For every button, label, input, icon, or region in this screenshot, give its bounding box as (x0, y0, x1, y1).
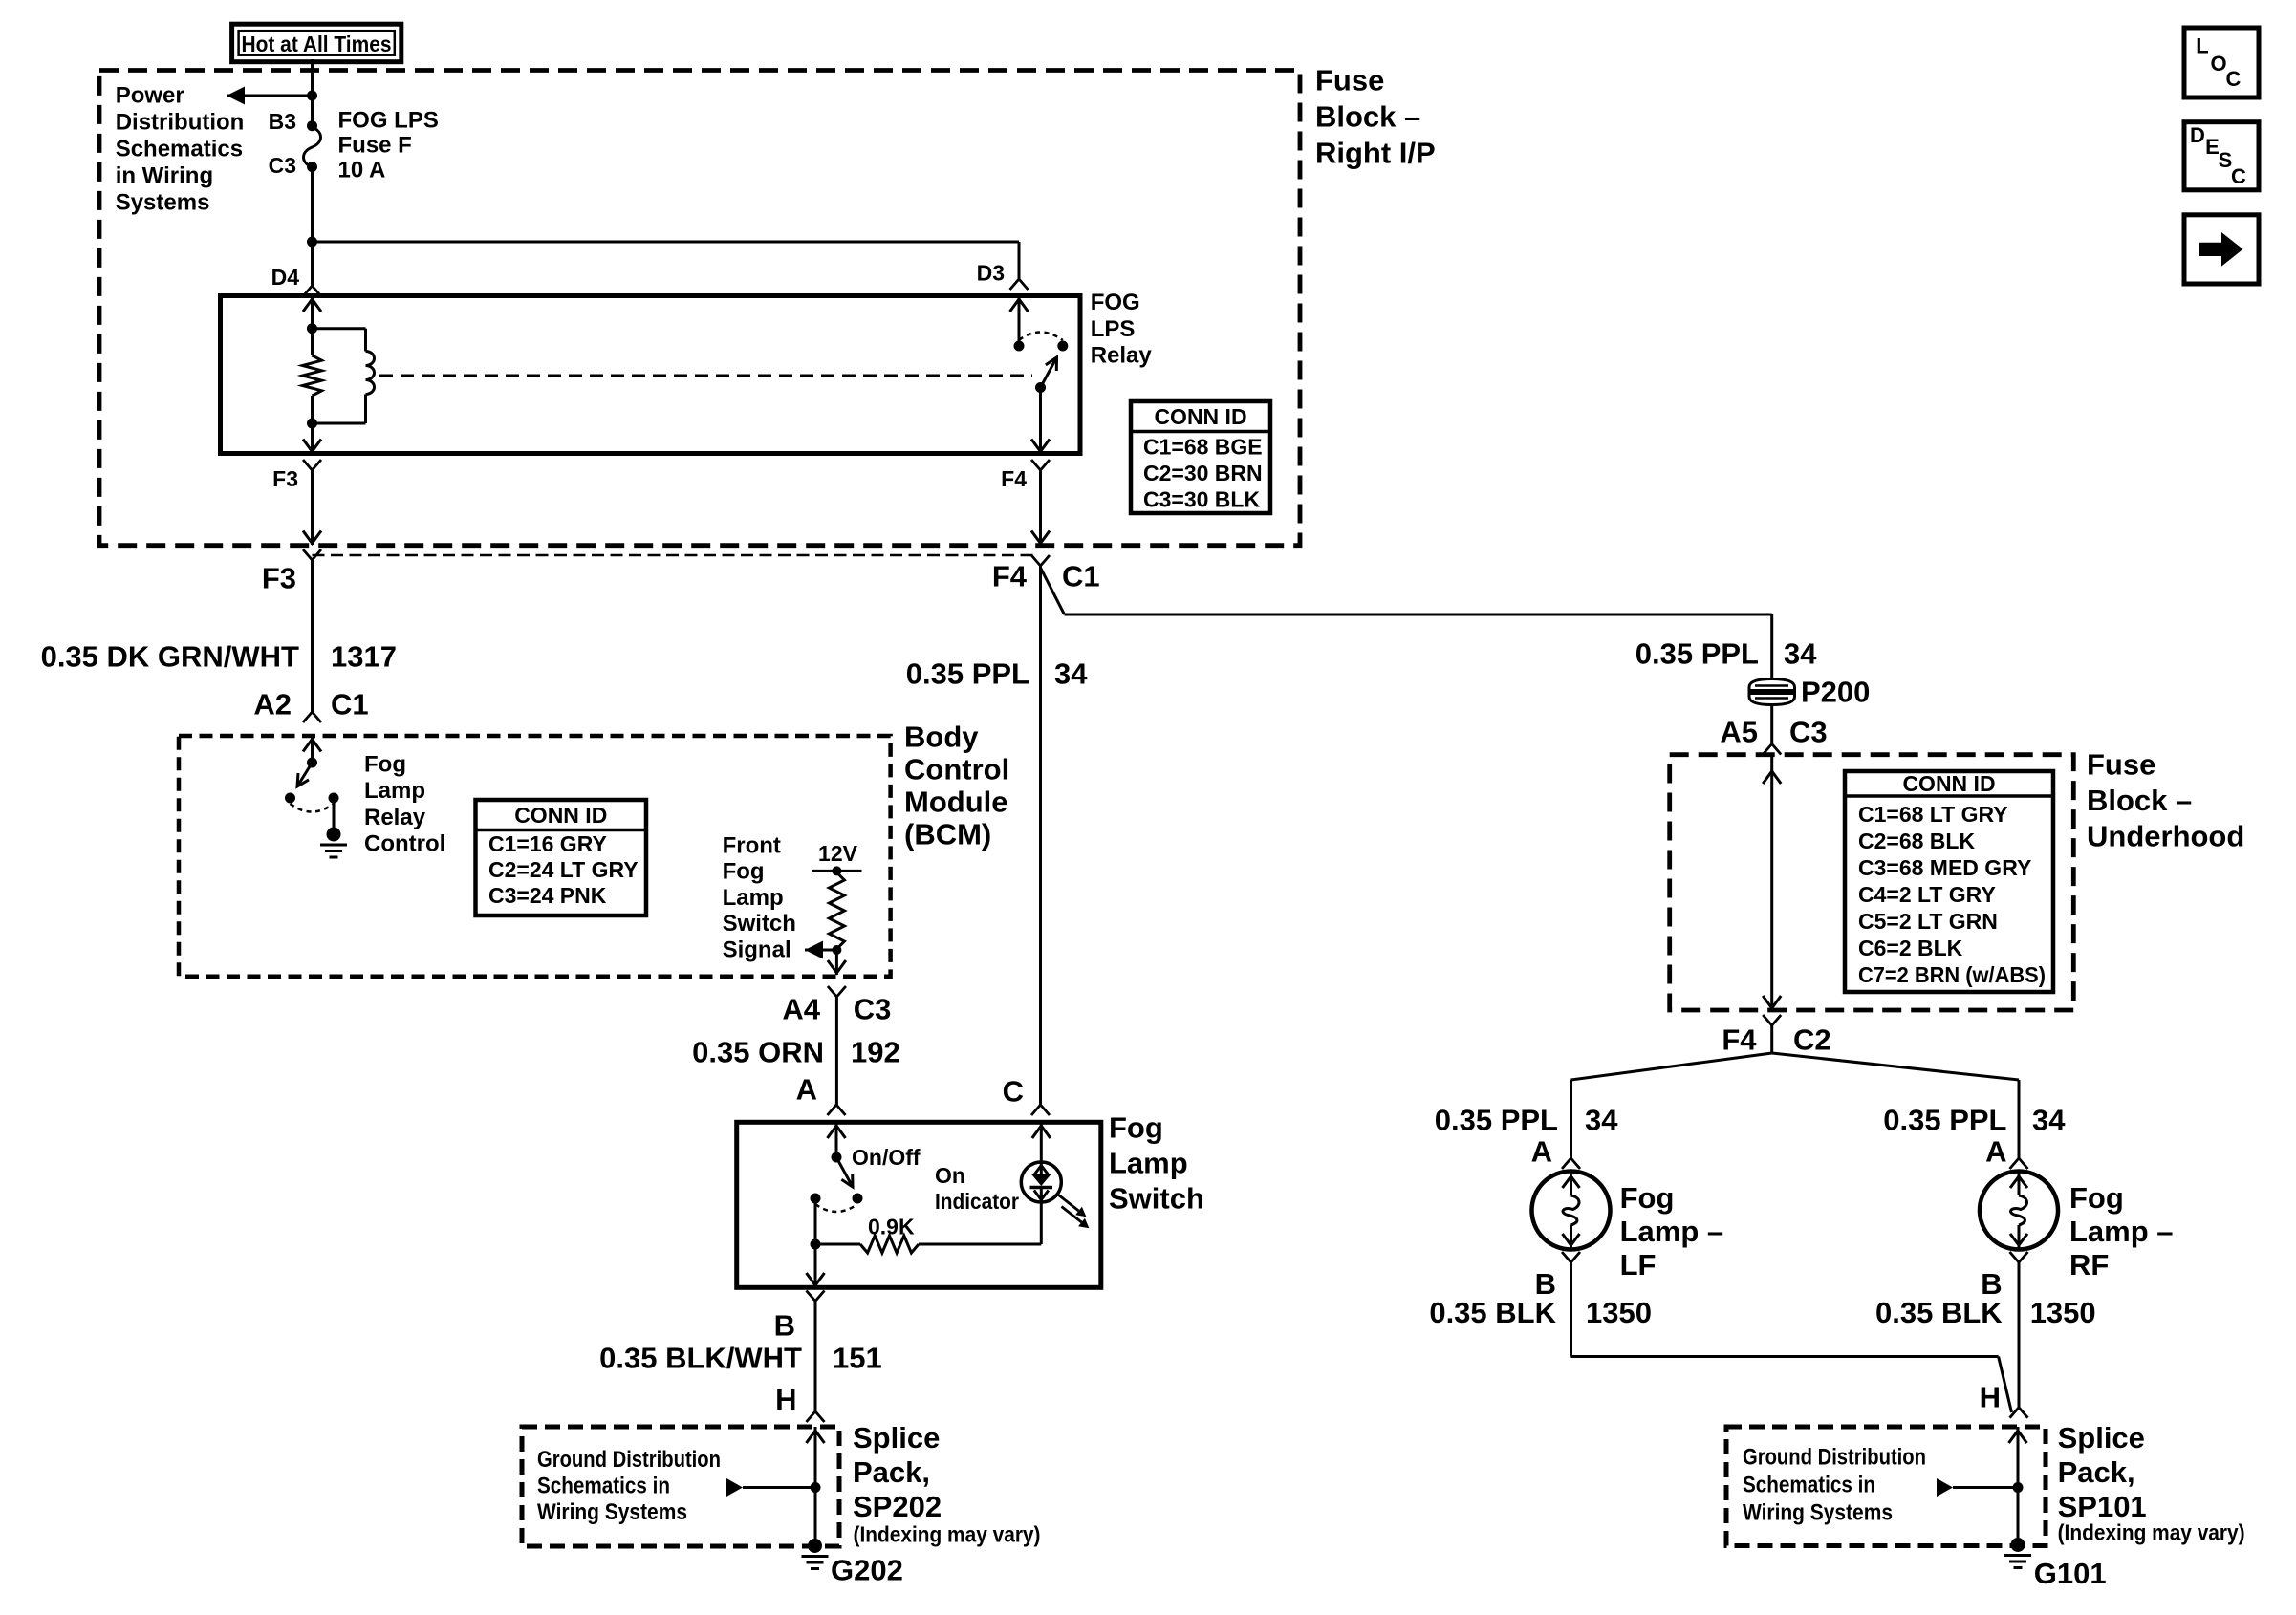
svg-text:H: H (1980, 1381, 2001, 1414)
svg-text:C7=2 BRN (w/ABS): C7=2 BRN (w/ABS) (1858, 962, 2046, 987)
svg-text:34: 34 (1054, 657, 1088, 691)
svg-text:Power: Power (116, 83, 184, 109)
svg-text:C1=68 BGE: C1=68 BGE (1143, 435, 1263, 460)
svg-text:0.35 BLK: 0.35 BLK (1429, 1296, 1556, 1329)
svg-text:Fog: Fog (364, 752, 406, 778)
svg-text:151: 151 (833, 1342, 882, 1375)
svg-text:F4: F4 (992, 560, 1028, 593)
svg-text:Systems: Systems (116, 190, 210, 216)
svg-text:Switch: Switch (723, 911, 796, 937)
svg-text:Lamp: Lamp (1109, 1147, 1188, 1180)
svg-text:(Indexing may vary): (Indexing may vary) (2058, 1520, 2245, 1545)
svg-text:Wiring Systems: Wiring Systems (1743, 1500, 1893, 1526)
svg-text:1317: 1317 (331, 640, 397, 674)
svg-text:C3=24 PNK: C3=24 PNK (488, 883, 607, 908)
svg-text:Fog: Fog (723, 859, 765, 885)
svg-text:0.35 DK GRN/WHT: 0.35 DK GRN/WHT (41, 640, 299, 674)
svg-text:G101: G101 (2034, 1557, 2107, 1590)
svg-text:C: C (2226, 67, 2242, 91)
svg-text:0.35 ORN: 0.35 ORN (692, 1036, 824, 1069)
svg-text:1350: 1350 (1586, 1296, 1652, 1329)
svg-text:Underhood: Underhood (2087, 820, 2244, 853)
svg-text:Wiring Systems: Wiring Systems (537, 1499, 687, 1525)
svg-text:C2=30 BRN: C2=30 BRN (1143, 461, 1263, 485)
svg-text:Ground Distribution: Ground Distribution (537, 1447, 721, 1473)
svg-text:C6=2 BLK: C6=2 BLK (1858, 936, 1963, 960)
svg-text:(Indexing may vary): (Indexing may vary) (854, 1522, 1041, 1547)
svg-text:(BCM): (BCM) (904, 818, 991, 851)
svg-text:O: O (2210, 52, 2226, 75)
svg-text:C1=16 GRY: C1=16 GRY (488, 831, 607, 856)
svg-text:Relay: Relay (364, 805, 426, 830)
svg-text:C: C (1003, 1075, 1024, 1109)
svg-text:A5: A5 (1720, 716, 1758, 749)
svg-text:C3: C3 (854, 993, 892, 1026)
svg-text:0.35 PPL: 0.35 PPL (1883, 1104, 2006, 1137)
svg-text:Relay: Relay (1091, 343, 1153, 369)
svg-text:Distribution: Distribution (116, 110, 245, 136)
svg-text:CONN ID: CONN ID (514, 803, 607, 828)
svg-text:0.35 BLK: 0.35 BLK (1875, 1296, 2003, 1329)
svg-text:Switch: Switch (1109, 1182, 1204, 1216)
svg-text:G202: G202 (831, 1554, 903, 1587)
svg-text:F4: F4 (1001, 466, 1027, 491)
svg-text:Schematics in: Schematics in (537, 1474, 670, 1499)
svg-text:A: A (796, 1073, 817, 1107)
svg-text:H: H (775, 1383, 796, 1416)
svg-text:C1=68 LT GRY: C1=68 LT GRY (1858, 802, 2008, 827)
svg-text:CONN ID: CONN ID (1902, 771, 1995, 796)
svg-text:Hot at All Times: Hot at All Times (242, 32, 392, 56)
svg-text:Control: Control (904, 753, 1009, 786)
svg-text:C2: C2 (1793, 1023, 1831, 1057)
svg-text:Schematics in: Schematics in (1743, 1473, 1875, 1498)
svg-text:LPS: LPS (1091, 316, 1136, 342)
svg-text:Indicator: Indicator (935, 1189, 1019, 1214)
svg-text:Control: Control (364, 831, 445, 857)
svg-text:E: E (2205, 135, 2220, 159)
svg-text:C1: C1 (1062, 560, 1100, 593)
svg-text:Fog: Fog (2069, 1181, 2124, 1215)
svg-text:Fuse: Fuse (2087, 748, 2155, 782)
svg-text:B3: B3 (269, 109, 296, 134)
svg-text:On: On (935, 1163, 965, 1188)
svg-text:34: 34 (1585, 1104, 1618, 1137)
svg-text:Body: Body (904, 721, 979, 754)
svg-text:C3=30 BLK: C3=30 BLK (1143, 487, 1260, 512)
svg-text:34: 34 (1784, 637, 1817, 671)
svg-text:C3=68 MED GRY: C3=68 MED GRY (1858, 855, 2031, 880)
svg-text:1350: 1350 (2030, 1296, 2096, 1329)
svg-text:12V: 12V (818, 841, 858, 866)
svg-text:C2=68 BLK: C2=68 BLK (1858, 829, 1975, 853)
svg-text:On/Off: On/Off (852, 1145, 921, 1170)
svg-text:Module: Module (904, 786, 1008, 819)
svg-text:Fog: Fog (1620, 1181, 1675, 1215)
svg-text:A4: A4 (782, 993, 820, 1026)
svg-text:10 A: 10 A (338, 158, 386, 183)
svg-text:0.35 BLK/WHT: 0.35 BLK/WHT (599, 1342, 802, 1375)
svg-text:P200: P200 (1801, 676, 1870, 709)
svg-text:SP101: SP101 (2058, 1490, 2147, 1523)
svg-text:SP202: SP202 (853, 1490, 942, 1523)
svg-text:Pack,: Pack, (2058, 1455, 2135, 1489)
svg-text:Splice: Splice (853, 1421, 940, 1454)
svg-text:Fuse: Fuse (1315, 64, 1384, 97)
svg-text:C4=2 LT GRY: C4=2 LT GRY (1858, 882, 1996, 907)
svg-text:CONN ID: CONN ID (1154, 404, 1246, 429)
svg-text:Block –: Block – (2087, 784, 2192, 817)
svg-text:FOG LPS: FOG LPS (338, 108, 439, 134)
svg-text:0.35 PPL: 0.35 PPL (1435, 1104, 1558, 1137)
svg-text:C3: C3 (1789, 716, 1828, 749)
svg-text:C: C (2231, 164, 2246, 188)
svg-text:L: L (2196, 34, 2208, 58)
svg-text:D4: D4 (271, 265, 300, 290)
svg-text:Schematics: Schematics (116, 137, 243, 162)
svg-text:Block –: Block – (1315, 100, 1420, 134)
svg-text:C5=2 LT GRN: C5=2 LT GRN (1858, 909, 1998, 934)
svg-text:Lamp –: Lamp – (2069, 1215, 2174, 1248)
svg-text:0.9K: 0.9K (868, 1215, 915, 1239)
svg-text:A: A (1985, 1135, 2006, 1169)
svg-text:C2=24 LT GRY: C2=24 LT GRY (488, 857, 639, 882)
svg-text:A2: A2 (253, 688, 292, 721)
svg-text:A: A (1531, 1135, 1552, 1169)
svg-text:RF: RF (2069, 1248, 2109, 1281)
svg-text:in Wiring: in Wiring (116, 163, 213, 189)
svg-text:192: 192 (851, 1036, 900, 1069)
svg-text:34: 34 (2032, 1104, 2066, 1137)
svg-text:Ground Distribution: Ground Distribution (1743, 1445, 1926, 1471)
svg-text:Lamp: Lamp (723, 885, 784, 911)
svg-text:Fuse F: Fuse F (338, 133, 412, 159)
svg-text:Right I/P: Right I/P (1315, 137, 1436, 170)
svg-text:B: B (774, 1309, 795, 1343)
svg-text:Fog: Fog (1109, 1111, 1163, 1145)
svg-text:C1: C1 (331, 688, 369, 721)
svg-text:D3: D3 (977, 261, 1005, 286)
svg-text:Lamp: Lamp (364, 778, 425, 804)
svg-text:F3: F3 (272, 466, 298, 491)
svg-text:Front: Front (723, 833, 781, 859)
svg-text:0.35 PPL: 0.35 PPL (906, 657, 1029, 691)
svg-text:Pack,: Pack, (853, 1455, 930, 1489)
svg-text:Lamp –: Lamp – (1620, 1215, 1724, 1248)
svg-text:C3: C3 (269, 153, 296, 178)
svg-text:F4: F4 (1722, 1023, 1757, 1057)
svg-text:LF: LF (1620, 1248, 1657, 1281)
svg-text:Signal: Signal (723, 937, 791, 962)
svg-text:D: D (2190, 123, 2205, 147)
svg-text:FOG: FOG (1091, 290, 1140, 315)
svg-text:0.35 PPL: 0.35 PPL (1635, 637, 1759, 671)
svg-text:Splice: Splice (2058, 1421, 2145, 1454)
svg-text:F3: F3 (262, 562, 296, 595)
